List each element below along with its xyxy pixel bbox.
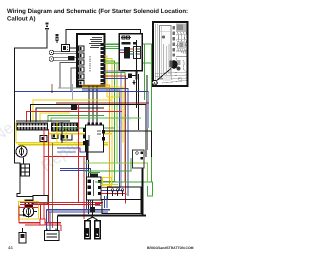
- svg-text:Callout A): Callout A): [7, 16, 36, 23]
- navy bottom long pair: [47, 209, 111, 211]
- green mid cross: [57, 127, 115, 129]
- wire navy long: [15, 92, 148, 128]
- wire meter to grid: [23, 158, 25, 165]
- small aux connector blocks: [52, 134, 58, 139]
- black cross to right: [105, 131, 152, 157]
- fuse block label plate: [134, 47, 141, 59]
- fuse block connector: [124, 47, 130, 59]
- key switch circle: [23, 206, 33, 216]
- navy step wires: [57, 148, 87, 210]
- wire E1 to module: [54, 50, 77, 52]
- connector wires: [130, 48, 134, 50]
- callout A leader line: [156, 69, 172, 82]
- right small terminals: [133, 150, 145, 168]
- svg-text:4: 4: [115, 192, 117, 196]
- wire yellow: [33, 100, 112, 122]
- connector block lower jogs: [95, 202, 102, 204]
- svg-text:44: 44: [8, 245, 13, 250]
- yellow boundary: [19, 202, 39, 220]
- wire yellow short: [40, 113, 70, 122]
- connector block output wires: [101, 180, 116, 182]
- wires left of relay descending: [56, 122, 58, 143]
- wire: module left pin drops: [60, 63, 77, 89]
- wire green pair: [48, 115, 104, 122]
- splice block: [68, 56, 75, 61]
- ignition switch S1 assembly: [19, 196, 49, 220]
- wire: green vertical mid-right: [144, 44, 146, 100]
- wire: U1 bottom pin drops to relay below: [88, 87, 90, 123]
- ground dot: [23, 214, 26, 217]
- wire E2 to module: [54, 57, 77, 59]
- wire: green long vertical right: [105, 62, 152, 64]
- red harness around switch: [18, 206, 20, 224]
- black bar: [86, 140, 89, 160]
- U1 vertical label: [89, 56, 91, 72]
- black housing top: [33, 196, 48, 205]
- yellow mid cross: [48, 133, 112, 135]
- ECU module U1: [77, 34, 106, 87]
- wire lightblue stub: [72, 84, 74, 100]
- wire dark red: [56, 102, 149, 104]
- U1 left pins: [79, 46, 85, 86]
- green bottom long: [95, 182, 153, 196]
- battery B1: [45, 229, 60, 241]
- fuse block F: [119, 34, 142, 71]
- switch connector: [25, 200, 34, 208]
- engine ground frame: [102, 168, 143, 216]
- callout A marker: [152, 80, 157, 85]
- red component left: [40, 219, 45, 225]
- wire pair down to frame: [145, 75, 147, 150]
- wire black mid: [31, 105, 146, 157]
- green low component: [88, 172, 100, 176]
- ring terminal E2: [49, 57, 54, 62]
- ring terminal E1: [49, 50, 54, 55]
- yellow hook: [107, 90, 119, 97]
- connector at top of harness: [45, 23, 49, 30]
- yellow pin box: [103, 178, 112, 187]
- diode/key component: [128, 72, 138, 85]
- inline fuse F2: [19, 228, 26, 243]
- wire: black loop over module top: [66, 30, 141, 45]
- engine illustration box (Callout A location): [152, 22, 187, 86]
- svg-text:Wiring Diagram and Schematic (: Wiring Diagram and Schematic (For Starte…: [7, 8, 188, 15]
- U1 right pin column: [101, 43, 106, 86]
- relay K1: [62, 45, 70, 52]
- black bottom wire: [58, 215, 147, 217]
- wire: black verticals below fuse block: [136, 40, 138, 108]
- svg-text:BRIGGSandSTRATTON.COM: BRIGGSandSTRATTON.COM: [147, 246, 194, 250]
- wire brown stub: [51, 84, 53, 92]
- fuse holder grid: [21, 164, 30, 176]
- yellow main feed: [16, 142, 108, 144]
- U1 pin labels (text lines): [89, 38, 102, 48]
- wire meter stem: [21, 144, 23, 146]
- dark segment strip: [173, 26, 176, 57]
- deck lines: [155, 72, 187, 83]
- starter solenoid (dark blob): [171, 60, 178, 69]
- inline fuse symbol: [56, 34, 59, 43]
- svg-text:6: 6: [125, 192, 127, 196]
- wire gray: [58, 87, 110, 89]
- connector block J3: [87, 177, 102, 200]
- terminal strip TB2: [51, 123, 78, 132]
- wire black low: [16, 120, 70, 122]
- terminal strip TB1: [16, 123, 48, 131]
- engine texture right: [176, 24, 187, 33]
- wire: top-left black harness: [15, 30, 48, 197]
- seat switch connector: [85, 200, 101, 239]
- hourmeter M1: [16, 146, 27, 157]
- wire red mid: [27, 112, 123, 123]
- wire: green long to right: [105, 44, 152, 182]
- wire relay to module: [70, 47, 78, 49]
- wire: green module to fuse block: [106, 44, 120, 46]
- wire bundle from U1 right side descending: [105, 56, 108, 97]
- relay module K2: [83, 123, 105, 153]
- frame terminal pins: [111, 189, 127, 196]
